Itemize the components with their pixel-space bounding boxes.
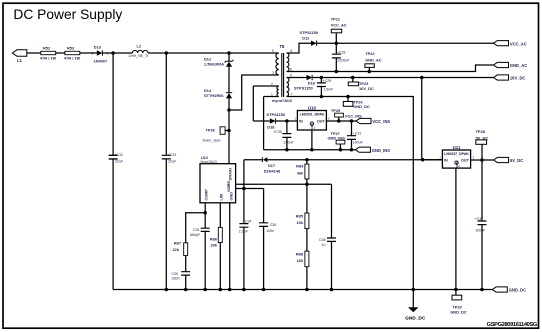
test point TP29 (450, 295, 467, 314)
wire VDD feed row with D17 (244, 159, 443, 161)
wire secondary return row pin7 (287, 97, 414, 290)
diode D13 (92, 45, 109, 64)
svg-text:C36: C36 (270, 223, 277, 227)
svg-text:VCC_INS: VCC_INS (372, 119, 390, 124)
wire TP22 stub (368, 67, 370, 71)
wire C37 branch (481, 160, 483, 290)
svg-text:47R / 1W: 47R / 1W (64, 56, 81, 61)
ground GND_DC (405, 307, 426, 321)
svg-text:5V_DC: 5V_DC (476, 135, 489, 140)
wire TP29 stub (455, 290, 457, 296)
svg-text:STTH1R06: STTH1R06 (204, 93, 224, 98)
svg-text:DRAIN: DRAIN (229, 168, 233, 180)
wire U11 gnd drop (455, 168, 457, 289)
svg-text:+C30: +C30 (273, 130, 282, 134)
inductor L2 (129, 44, 149, 58)
wire R84 divider chain (306, 160, 308, 290)
svg-text:1.5KE300A: 1.5KE300A (204, 61, 224, 66)
connector 16V_DC (494, 75, 526, 81)
connector L1 (12, 50, 26, 63)
svg-text:C34: C34 (245, 219, 252, 223)
svg-text:TP28: TP28 (476, 129, 486, 134)
svg-text:D18: D18 (267, 125, 275, 130)
wire TP24 stub (347, 97, 349, 102)
svg-text:+C28: +C28 (337, 51, 346, 55)
svg-text:DC Power Supply: DC Power Supply (13, 7, 122, 22)
wire main AC input row (26, 52, 279, 54)
svg-text:TP25: TP25 (331, 108, 341, 113)
svg-text:STPS1150: STPS1150 (294, 85, 313, 90)
svg-text:R84: R84 (296, 164, 304, 169)
wire GND_DC symbol stub (412, 290, 414, 308)
svg-text:7: 7 (291, 92, 293, 96)
capacitor C31 (347, 132, 364, 145)
wire U11 out row (471, 159, 494, 161)
diode D11 (300, 30, 319, 46)
svg-text:C39: C39 (171, 272, 178, 276)
resistor R85 (296, 213, 309, 229)
test point TP28 (476, 129, 489, 144)
svg-text:22k: 22k (173, 247, 180, 252)
svg-text:myrra74010: myrra74010 (272, 99, 292, 103)
wire C28 branch (335, 43, 337, 71)
wire FB row (236, 183, 332, 185)
svg-text:GND_INS: GND_INS (328, 136, 346, 141)
diode D16 (294, 75, 316, 91)
capacitor C38 (319, 238, 336, 247)
svg-text:5: 5 (290, 67, 292, 71)
wire TP25 stub (338, 117, 340, 121)
svg-text:GND_AC: GND_AC (365, 57, 382, 62)
svg-text:GND_DC: GND_DC (450, 310, 467, 315)
svg-text:16V_DC: 16V_DC (510, 76, 526, 81)
svg-text:100n: 100n (266, 229, 274, 233)
svg-text:U10: U10 (308, 105, 317, 110)
wire drain clamp vertical (228, 53, 230, 164)
capacitor C35 (190, 228, 210, 237)
resistor R52 (40, 45, 57, 60)
svg-text:GND_DC: GND_DC (509, 288, 526, 293)
resistor R87 (173, 240, 188, 255)
svg-text:IN: IN (444, 159, 448, 163)
svg-text:2200uF: 2200uF (337, 59, 350, 63)
wire C32 branch (112, 53, 114, 290)
capacitor C28 (332, 51, 351, 63)
wire clamp to transformer pin3 (229, 75, 279, 110)
wire U12 comp branch (204, 203, 206, 290)
svg-text:680pF: 680pF (190, 233, 201, 237)
svg-text:R88: R88 (296, 251, 304, 256)
wire VCC_AC row (287, 43, 494, 53)
resistor R86 (210, 227, 222, 247)
wire C36 branch (263, 189, 265, 290)
svg-text:R53: R53 (67, 45, 75, 50)
svg-text:R87: R87 (174, 240, 181, 245)
wire GND row (113, 289, 492, 291)
svg-text:20k: 20k (211, 243, 218, 248)
svg-text:TP26: TP26 (206, 128, 216, 133)
svg-text:+C37: +C37 (475, 217, 484, 221)
test point TP22 (365, 51, 382, 67)
resistor R53 (64, 45, 81, 60)
svg-text:LM2931_DPAK: LM2931_DPAK (300, 112, 325, 116)
wire VDD vertical C34 (243, 160, 245, 290)
diode D14 (204, 88, 232, 98)
svg-text:GSPG2809161140SG: GSPG2809161140SG (487, 322, 538, 328)
svg-text:2.2uF: 2.2uF (239, 230, 249, 234)
test point TP26 (203, 127, 226, 143)
svg-text:100uF: 100uF (475, 229, 486, 233)
svg-text:6: 6 (272, 49, 274, 53)
svg-text:L1: L1 (17, 58, 23, 63)
svg-text:1n: 1n (322, 243, 326, 247)
svg-text:STPS1150: STPS1150 (267, 112, 286, 117)
resistor R88 (296, 251, 309, 267)
svg-text:8: 8 (290, 49, 292, 53)
wire comp jog to R87 (186, 213, 206, 290)
wire C38 branch (331, 184, 333, 289)
svg-text:10k: 10k (297, 220, 304, 225)
wire U11 in row (423, 159, 443, 161)
capacitor C30 (273, 130, 294, 145)
wire C33 branch (165, 53, 167, 290)
svg-text:6: 6 (290, 73, 292, 77)
svg-text:3: 3 (272, 71, 274, 75)
capacitor C34 (239, 219, 252, 233)
svg-text:5V_DC: 5V_DC (510, 158, 523, 163)
wire C29 branch (320, 78, 322, 97)
capacitor C29 (317, 79, 334, 92)
diode D17 (262, 157, 281, 173)
svg-text:+C32: +C32 (114, 153, 123, 157)
svg-text:C38: C38 (319, 238, 326, 242)
test point TP21 (331, 17, 347, 33)
regulator U10 (294, 105, 330, 130)
wire transformer pin1 to GND_INS (264, 97, 279, 150)
svg-text:GND_DC: GND_DC (353, 104, 370, 109)
svg-text:330n: 330n (172, 277, 180, 281)
svg-text:GND_DC: GND_DC (405, 315, 426, 321)
svg-text:+C31: +C31 (353, 132, 362, 136)
wire TP28 stub (481, 144, 483, 160)
svg-text:VCC_AC: VCC_AC (510, 41, 527, 46)
svg-text:R52: R52 (43, 45, 51, 50)
capacitor C33 (162, 153, 177, 164)
svg-text:TP21: TP21 (331, 17, 341, 22)
svg-text:GND: GND (230, 192, 234, 201)
connector VCC_INS (356, 118, 390, 124)
svg-text:Viper26LD: Viper26LD (200, 160, 217, 164)
wire C30 branch (286, 121, 288, 150)
svg-text:36k: 36k (297, 170, 304, 175)
svg-text:VCC_AC: VCC_AC (331, 23, 347, 28)
svg-text:OUT: OUT (317, 120, 326, 124)
svg-text:2: 2 (271, 82, 273, 86)
svg-text:R85: R85 (296, 213, 304, 218)
test point TP23 (348, 81, 374, 91)
capacitor C39 (171, 272, 190, 281)
svg-text:LIM: LIM (220, 194, 224, 201)
wire transformer pin2 to D18 (253, 86, 278, 121)
svg-text:GND: GND (310, 123, 314, 129)
svg-text:+C33: +C33 (168, 153, 177, 157)
wire U12 gnd branch (229, 203, 231, 290)
svg-text:1mH_NE_TI: 1mH_NE_TI (129, 54, 149, 58)
wire TP27 stub (339, 144, 341, 150)
svg-text:STPS1150: STPS1150 (300, 30, 319, 35)
svg-text:D11: D11 (302, 36, 310, 41)
svg-text:1: 1 (271, 92, 273, 96)
wire VDD row (236, 188, 264, 190)
svg-text:GND: GND (455, 162, 459, 168)
wire C31 branch (351, 121, 353, 150)
wire 16V_DC row (287, 77, 494, 79)
wire TP23 stub (352, 78, 354, 83)
svg-text:22uF: 22uF (115, 160, 124, 164)
svg-text:180: 180 (297, 258, 304, 263)
transformer T8 (271, 44, 293, 103)
wire U10 gnd stub (311, 130, 313, 150)
connector GND_DC (492, 287, 526, 293)
svg-text:U11: U11 (453, 145, 461, 150)
wire GND_INS row (264, 149, 356, 151)
svg-text:22uF: 22uF (168, 160, 177, 164)
svg-text:LM2937_DPAK: LM2937_DPAK (444, 152, 469, 156)
test point TP27 (328, 131, 346, 144)
capacitor C32 (109, 153, 124, 164)
svg-text:D13: D13 (94, 45, 102, 50)
svg-text:220uF: 220uF (284, 141, 295, 145)
svg-text:TP29: TP29 (452, 304, 462, 309)
svg-text:TP22: TP22 (365, 51, 375, 56)
test point TP24 (343, 100, 370, 110)
test point TP25 (331, 108, 362, 119)
diode D18 (267, 112, 286, 130)
wire 16V to U11 drop (421, 78, 423, 160)
svg-text:OUT: OUT (461, 159, 470, 163)
capacitor C37 (475, 217, 487, 233)
svg-text:47R / 1W: 47R / 1W (40, 56, 57, 61)
svg-text:1.5mF: 1.5mF (323, 88, 334, 92)
svg-text:+C29: +C29 (323, 79, 332, 83)
svg-text:100uF: 100uF (353, 141, 364, 145)
svg-text:GND_AC: GND_AC (510, 63, 527, 68)
svg-text:IN: IN (299, 120, 303, 124)
resistor R84 (296, 164, 309, 179)
wire D18 row (253, 120, 297, 122)
svg-text:D17: D17 (268, 163, 275, 168)
TVS diode D12 (204, 56, 233, 67)
svg-text:R86: R86 (210, 237, 218, 242)
svg-text:COMP: COMP (205, 189, 209, 201)
connector VCC_AC (494, 41, 527, 47)
wire TP21 stub (335, 33, 337, 43)
connector GND_AC (494, 62, 528, 68)
svg-text:T8: T8 (280, 44, 286, 49)
svg-text:Drain_viper: Drain_viper (203, 139, 222, 143)
wire TP26 stub (225, 130, 229, 132)
svg-text:GND_INS: GND_INS (372, 148, 390, 153)
svg-text:D1N4148: D1N4148 (264, 168, 281, 173)
svg-text:FB: FB (227, 181, 231, 186)
regulator U11 (439, 145, 474, 168)
svg-text:C35: C35 (193, 228, 200, 232)
connector GND_INS (355, 147, 390, 153)
connector 5V_DC (494, 157, 524, 163)
svg-text:16V_DC: 16V_DC (359, 86, 374, 91)
wire GND_AC row (287, 65, 494, 72)
svg-text:1: 1 (106, 51, 108, 55)
svg-text:1N4007: 1N4007 (94, 58, 108, 63)
wire U12 lim branch (219, 203, 221, 290)
capacitor C36 (259, 223, 276, 233)
viper U12 (200, 155, 236, 203)
svg-text:2: 2 (92, 51, 94, 55)
wire U10 out row (326, 120, 356, 122)
